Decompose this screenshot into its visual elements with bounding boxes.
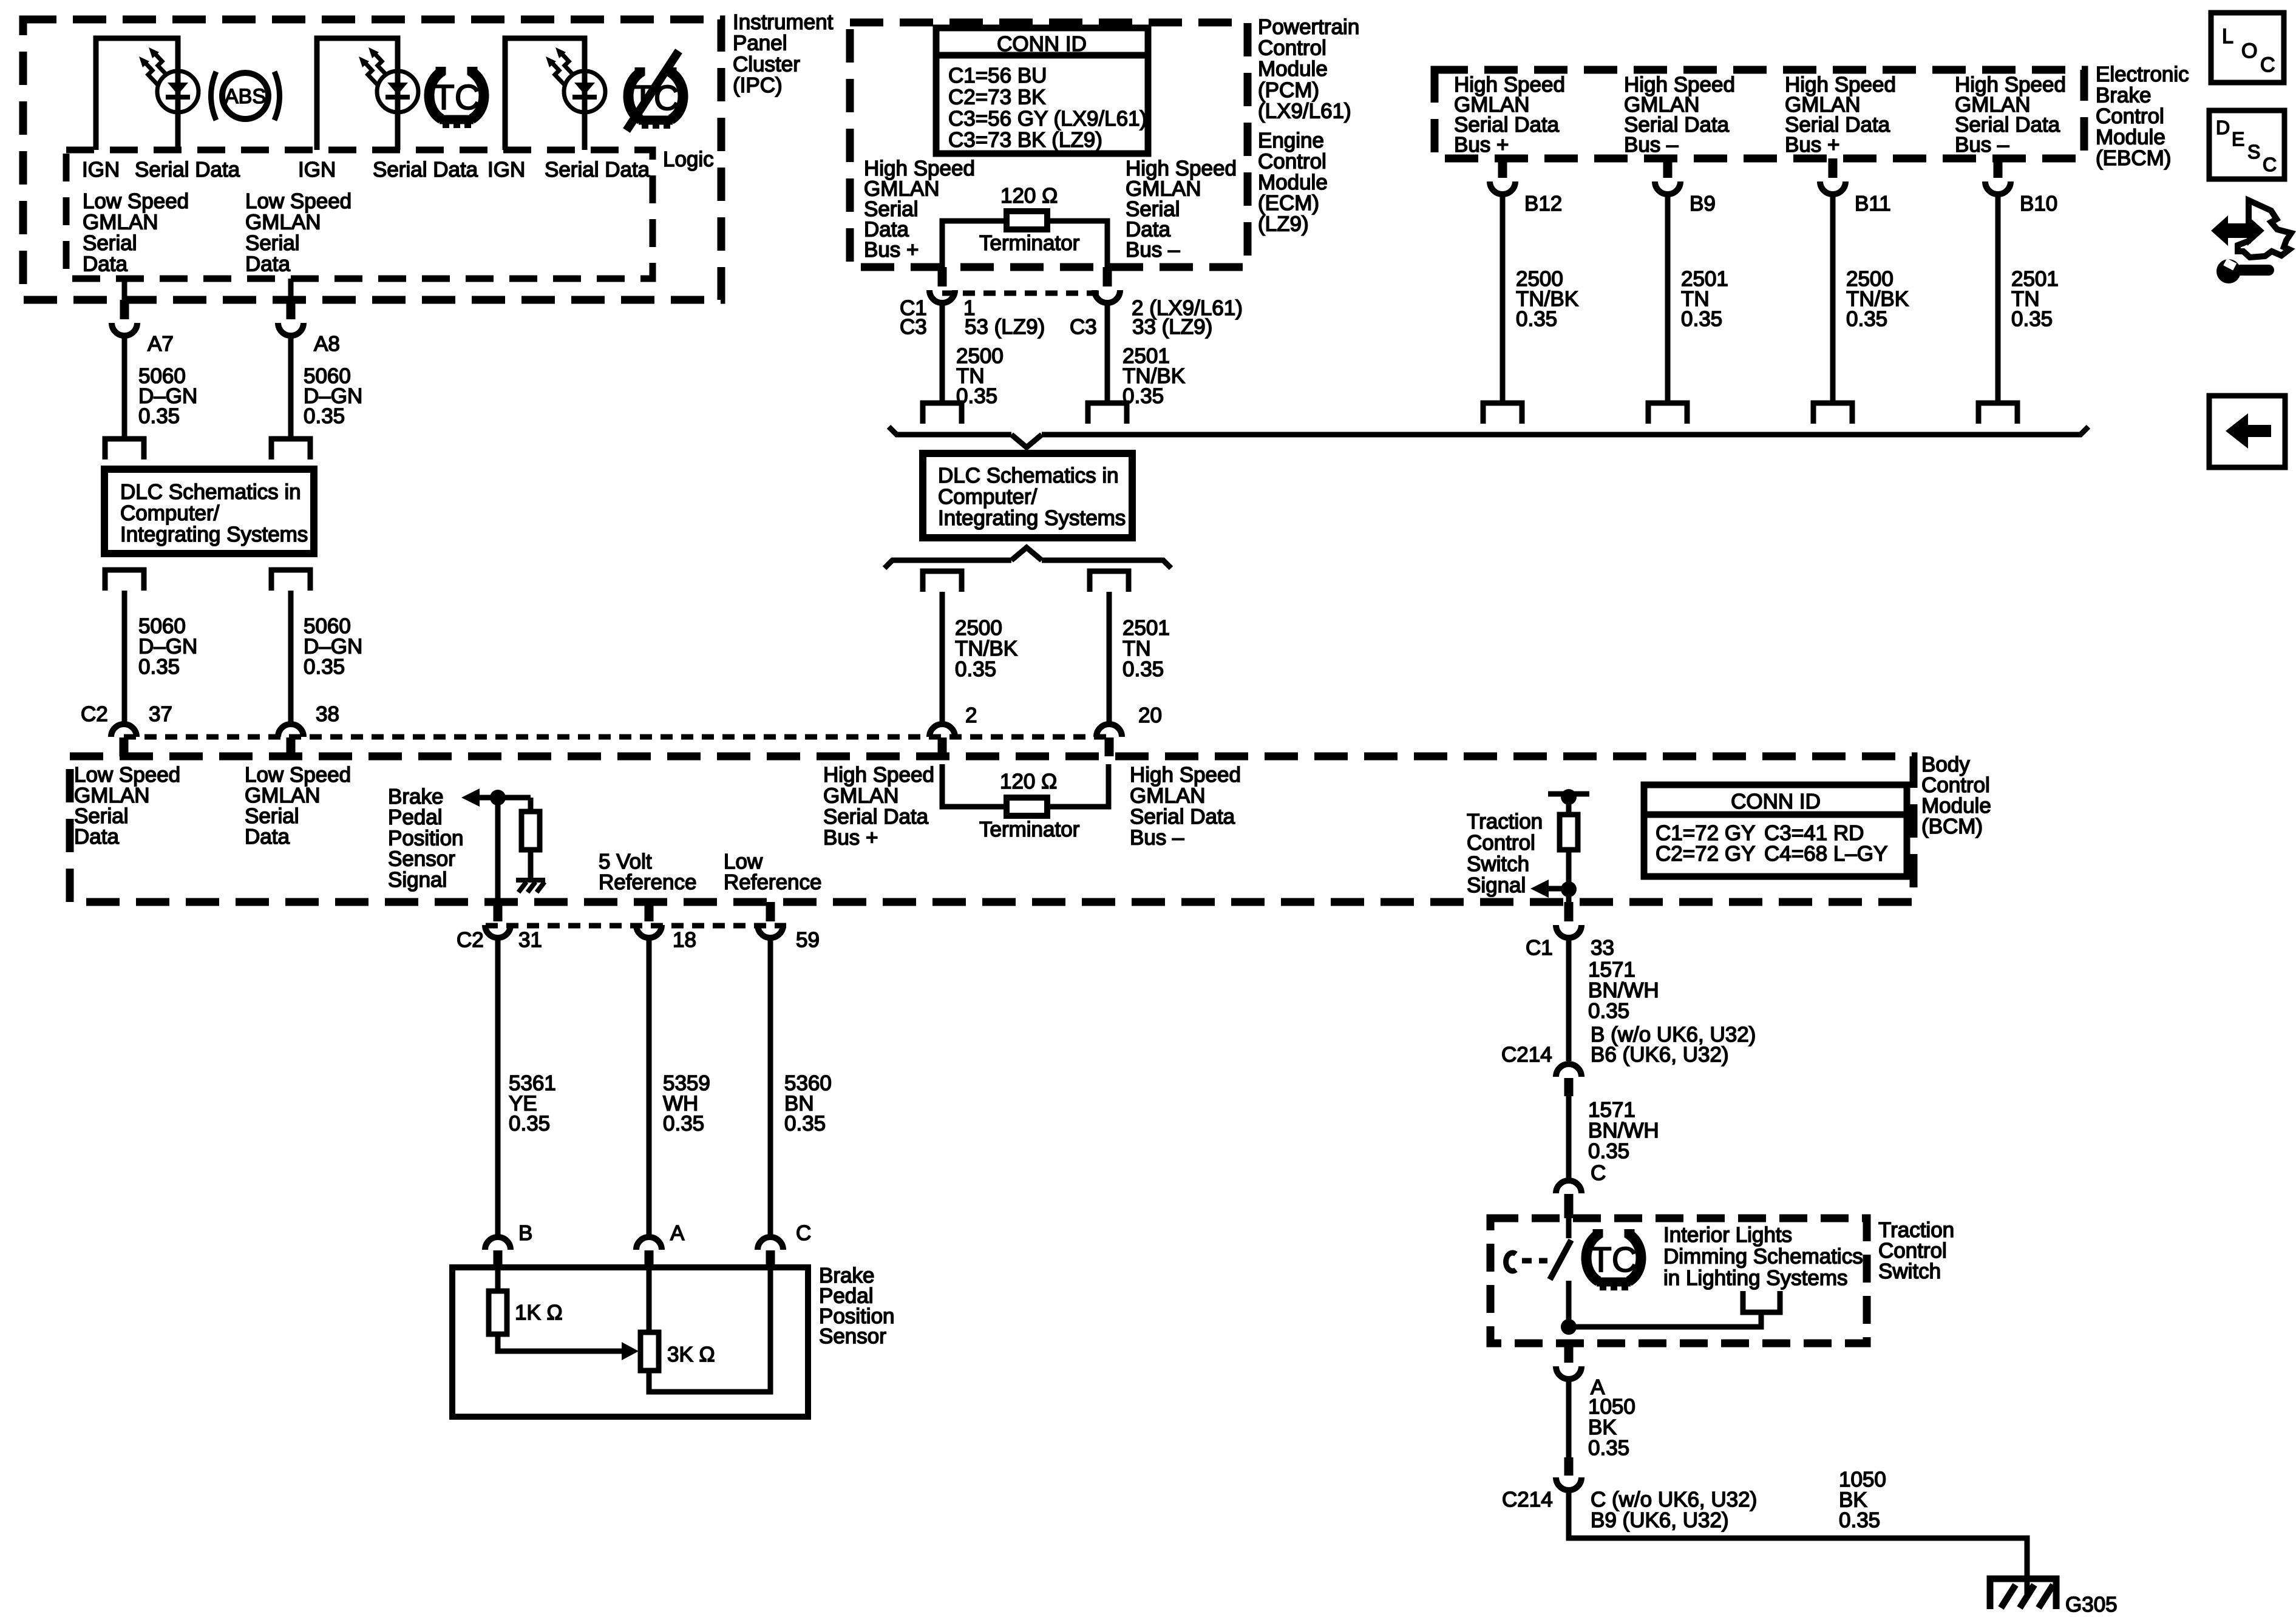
wire: PCM pin 1 to bus	[940, 302, 945, 403]
clip connector below DLC box (left)	[105, 570, 144, 591]
svg-text:C: C	[1591, 1161, 1606, 1185]
wire: 1K to wiper arrow	[498, 1334, 622, 1351]
switch contact	[1506, 1253, 1516, 1271]
svg-text:Integrating Systems: Integrating Systems	[938, 506, 1126, 530]
svg-text:Bus +: Bus +	[1785, 133, 1839, 157]
svg-text:S: S	[2247, 141, 2260, 163]
box: DLC Schematics in Computer/Integrating Systems (middle)	[923, 453, 1132, 538]
svg-text:(IPC): (IPC)	[733, 73, 783, 97]
wire: junction to pin 33	[1566, 889, 1572, 902]
ground G305	[1990, 1579, 2056, 1609]
label Traction Control Switch	[1878, 1218, 1954, 1283]
svg-text:C: C	[796, 1221, 811, 1245]
svg-text:Control: Control	[2096, 104, 2164, 128]
pull-up resistor (BCM right)	[1566, 797, 1572, 815]
BCM lower connector C2 dotted line	[486, 923, 786, 929]
pin label B9	[1681, 192, 1728, 331]
arrow: brake pedal position sensor signal	[461, 788, 480, 807]
svg-text:Instrument: Instrument	[733, 10, 834, 34]
junction dot traction signal	[1561, 881, 1577, 897]
svg-text:GMLAN: GMLAN	[83, 211, 158, 234]
wire: EBCM B12 to bus, circuit 2500	[1500, 194, 1506, 403]
svg-text:Data: Data	[245, 825, 290, 849]
svg-text:0.35: 0.35	[509, 1112, 550, 1136]
wire: C214 to ground G305	[1569, 1490, 2027, 1596]
PCM CONN ID table box	[936, 28, 1148, 154]
clip connector above DLC box (A7)	[105, 439, 144, 459]
svg-text:0.35: 0.35	[2011, 307, 2053, 331]
svg-text:DLC Schematics in: DLC Schematics in	[120, 480, 301, 504]
TC-off tire symbol with slash	[628, 67, 683, 129]
connector terminal A7 at IPC	[120, 300, 129, 319]
wire: BCM pin 33 to C214, circuit 1571	[1566, 937, 1572, 1061]
svg-text:CONN ID: CONN ID	[1731, 790, 1821, 813]
svg-text:Brake: Brake	[2096, 84, 2151, 107]
bracket to dimming schematics	[1743, 1291, 1780, 1312]
svg-text:C1: C1	[1526, 936, 1553, 960]
svg-text:B9 (UK6, U32): B9 (UK6, U32)	[1591, 1508, 1729, 1532]
svg-text:(PCM): (PCM)	[1258, 78, 1319, 102]
connector terminal C1 pin 33 at BCM	[1564, 902, 1574, 921]
TC tire symbol	[429, 67, 484, 128]
svg-text:Integrating Systems: Integrating Systems	[120, 523, 308, 546]
clip connector PCM pin1 at bus	[923, 403, 962, 424]
svg-text:0.35: 0.35	[1588, 1436, 1629, 1460]
wire: BCM pin 18 to brake pedal position sensor	[647, 937, 652, 1235]
bus brace line to DLC (upper)	[889, 427, 1011, 435]
in-line connector C214 (lower)	[1564, 1457, 1574, 1476]
svg-text:Serial Data: Serial Data	[545, 158, 650, 181]
pin label B10	[2011, 192, 2059, 331]
svg-text:Bus +: Bus +	[1454, 133, 1509, 157]
connector terminal 37 at BCM	[111, 724, 137, 737]
connector terminal 20 at BCM	[1096, 724, 1122, 737]
svg-text:Serial Data: Serial Data	[823, 805, 929, 829]
svg-text:0.35: 0.35	[304, 404, 345, 428]
svg-text:Interior Lights: Interior Lights	[1663, 1223, 1792, 1247]
svg-text:Bus –: Bus –	[1130, 826, 1184, 850]
labels IGN / Serial Data	[82, 158, 650, 181]
svg-text:E: E	[2232, 128, 2244, 150]
svg-text:B9: B9	[1690, 192, 1716, 215]
svg-text:Module: Module	[2096, 126, 2165, 149]
label Electronic Brake Control Module (EBCM)	[2096, 63, 2189, 170]
svg-text:C214: C214	[1501, 1043, 1552, 1066]
svg-text:G305: G305	[2065, 1593, 2118, 1616]
wire: EBCM B10 to bus, circuit 2501	[1995, 194, 2001, 403]
labels High Speed GMLAN Serial Data Bus (BCM)	[823, 763, 1241, 850]
svg-text:(ECM): (ECM)	[1258, 191, 1319, 215]
svg-text:(EBCM): (EBCM)	[2096, 146, 2171, 170]
svg-text:B: B	[518, 1221, 532, 1245]
wire labels 2500 TN 0.35 / 2501 TN/BK 0.35	[956, 344, 1185, 408]
label Traction Control Switch Signal	[1467, 810, 1543, 897]
labels Low Speed GMLAN Serial Data (IPC)	[83, 189, 352, 276]
svg-text:38: 38	[316, 702, 339, 726]
connector terminal A at switch exit	[1564, 1343, 1574, 1363]
svg-text:Low Speed: Low Speed	[83, 189, 189, 213]
svg-text:Engine: Engine	[1258, 129, 1324, 152]
pin label A7	[148, 332, 174, 356]
svg-text:ABS: ABS	[225, 85, 266, 108]
svg-text:0.35: 0.35	[1681, 307, 1722, 331]
svg-text:(BCM): (BCM)	[1921, 815, 1983, 838]
wire labels 5060 D-GN 0.35 (lower)	[138, 614, 362, 679]
brake pedal position sensor signal branch (BCM)	[388, 785, 464, 892]
IPC Logic inner dashed box	[66, 150, 653, 279]
module box: Traction Control Switch, dashed	[1490, 1218, 1867, 1343]
svg-text:2: 2	[965, 703, 977, 727]
svg-text:Serial Data: Serial Data	[135, 158, 240, 181]
svg-text:Signal: Signal	[388, 868, 447, 892]
icon: harness repair (arrow + wrench)	[2238, 200, 2291, 257]
svg-text:59: 59	[796, 928, 820, 952]
svg-text:C1=56 BU: C1=56 BU	[948, 64, 1047, 87]
svg-text:Traction: Traction	[1467, 810, 1543, 833]
wire: IPC pin A8 to DLC	[288, 279, 294, 300]
label Interior Lights Dimming Schematics in Lighting Systems	[1663, 1223, 1863, 1290]
labels 5 Volt Reference / Low Reference	[599, 850, 821, 894]
wire: C214 to traction control switch	[1566, 1096, 1572, 1181]
wire: IPC pin A7 to DLC	[122, 279, 127, 300]
svg-text:Serial: Serial	[245, 231, 299, 255]
svg-text:Module: Module	[1258, 57, 1328, 81]
component box: Brake Pedal Position Sensor	[452, 1267, 808, 1417]
svg-text:(LZ9): (LZ9)	[1258, 212, 1309, 236]
TC tire symbol (switch)	[1586, 1229, 1641, 1290]
svg-text:Logic: Logic	[663, 147, 714, 171]
svg-text:37: 37	[149, 702, 172, 726]
connector terminal B9 at EBCM	[1663, 158, 1673, 178]
terminator resistor 120 ohm (BCM)	[942, 764, 1007, 807]
svg-text:in Lighting Systems: in Lighting Systems	[1663, 1266, 1847, 1290]
pin label B12	[1516, 192, 1578, 331]
svg-text:Low Speed: Low Speed	[245, 189, 352, 213]
clip connector PCM pin2 at bus	[1088, 403, 1127, 424]
wire: DLC to BCM	[288, 591, 294, 722]
svg-text:0.35: 0.35	[1846, 307, 1887, 331]
wire: DLC to BCM pin 20	[1107, 592, 1112, 722]
clip connector below DLC middle (pin 2 wire)	[923, 571, 962, 592]
icon box back arrow	[2209, 396, 2285, 467]
svg-text:(LX9/L61): (LX9/L61)	[1258, 99, 1351, 123]
svg-text:C3: C3	[900, 315, 927, 339]
connector terminal C1/C3 pin 1 at PCM	[938, 267, 947, 286]
svg-text:Serial Data: Serial Data	[1130, 805, 1235, 829]
svg-text:Bus +: Bus +	[823, 826, 878, 850]
labels Low Speed GMLAN Serial Data (BCM)	[74, 763, 351, 849]
box: DLC Schematics in Computer/Integrating Systems (left)	[104, 469, 314, 554]
labels High Speed GMLAN Serial Data Bus + / - (PCM)	[864, 157, 1237, 262]
switch linkage dashed	[1522, 1258, 1547, 1264]
svg-text:0.35: 0.35	[1516, 307, 1557, 331]
svg-text:0.35: 0.35	[955, 657, 996, 681]
svg-text:Brake: Brake	[388, 785, 443, 808]
svg-text:0.35: 0.35	[138, 655, 180, 679]
svg-text:Switch: Switch	[1467, 852, 1529, 876]
pull-up bar junction (BCM right)	[1548, 792, 1589, 797]
svg-text:C214: C214	[1502, 1488, 1553, 1511]
svg-text:0.35: 0.35	[663, 1112, 704, 1136]
svg-text:18: 18	[673, 928, 696, 952]
svg-text:A8: A8	[314, 332, 340, 356]
pin label B11	[1846, 192, 1909, 331]
arrow: traction control switch signal	[1530, 880, 1549, 898]
wire: IPC LED1 loop	[96, 38, 178, 150]
svg-text:C3: C3	[1070, 315, 1097, 339]
svg-text:High Speed: High Speed	[823, 763, 934, 787]
svg-text:A7: A7	[148, 332, 174, 356]
svg-text:Control: Control	[1258, 36, 1326, 60]
svg-text:Position: Position	[388, 826, 464, 850]
svg-text:Computer/: Computer/	[938, 485, 1038, 509]
svg-text:C: C	[2260, 53, 2275, 76]
pull-up resistor to ground (BCM left)	[528, 798, 534, 812]
svg-text:0.35: 0.35	[138, 404, 180, 428]
svg-text:Module: Module	[1258, 171, 1328, 194]
clip connector EBCM B12 at bus	[1483, 403, 1522, 424]
svg-text:0.35: 0.35	[304, 655, 345, 679]
svg-text:Terminator: Terminator	[979, 231, 1080, 255]
junction dot brake signal	[490, 790, 506, 805]
svg-text:High Speed: High Speed	[1130, 763, 1241, 787]
wire: BCM pin 59 to brake pedal position sensor	[768, 937, 773, 1235]
connector terminal B10 at EBCM	[1994, 158, 2003, 178]
svg-text:C2: C2	[81, 702, 108, 726]
LED2 traction control indicator lamp	[395, 72, 401, 112]
svg-text:GMLAN: GMLAN	[245, 211, 321, 234]
svg-text:120 Ω: 120 Ω	[1000, 184, 1058, 208]
svg-text:GMLAN: GMLAN	[1130, 784, 1205, 808]
clip connector EBCM B10 at bus	[1978, 403, 2017, 424]
svg-text:0.35: 0.35	[784, 1112, 826, 1136]
connector terminal 59 at BCM bottom	[766, 902, 775, 921]
label Logic	[663, 147, 714, 171]
svg-text:TC: TC	[433, 78, 480, 117]
clip connector EBCM B9 at bus	[1648, 403, 1687, 424]
svg-text:C2=72 GY: C2=72 GY	[1656, 842, 1755, 866]
svg-text:0.35: 0.35	[1588, 999, 1629, 1023]
connector terminal A8 at IPC	[287, 300, 296, 319]
svg-text:Switch: Switch	[1878, 1259, 1941, 1283]
svg-text:B11: B11	[1855, 192, 1891, 215]
wiper arrow into 3K potentiometer	[622, 1342, 639, 1360]
svg-text:31: 31	[518, 928, 542, 952]
svg-text:C3=56 GY (LX9/L61): C3=56 GY (LX9/L61)	[948, 107, 1147, 131]
svg-text:120 Ω: 120 Ω	[1000, 770, 1057, 793]
PCM connector dotted line	[942, 291, 1107, 296]
svg-text:Serial: Serial	[83, 231, 137, 255]
svg-text:33 (LZ9): 33 (LZ9)	[1132, 315, 1212, 339]
wire labels 2500 TN/BK / 2501 TN	[955, 616, 1170, 727]
wire: EBCM B9 to bus, circuit 2501	[1665, 194, 1671, 403]
svg-text:Reference: Reference	[724, 870, 821, 894]
svg-text:0.35: 0.35	[1588, 1139, 1629, 1163]
wire: PCM pin 2 to bus	[1105, 302, 1110, 403]
connector terminal B12 at EBCM	[1498, 158, 1507, 178]
pin labels C2 37 38	[81, 702, 339, 726]
connector terminal B11 at EBCM	[1829, 158, 1838, 178]
icon box LOC	[2211, 13, 2284, 83]
svg-text:O: O	[2241, 39, 2257, 63]
svg-text:IGN: IGN	[487, 158, 525, 181]
potentiometer 3K ohm	[640, 1332, 659, 1371]
clip connector above DLC box (A8)	[271, 439, 310, 459]
svg-text:Control: Control	[1258, 149, 1326, 173]
connector terminal C at traction control switch	[1556, 1181, 1581, 1193]
svg-text:Serial Data: Serial Data	[373, 158, 478, 181]
junction dot in switch	[1561, 1319, 1577, 1335]
connector terminal 18 at BCM bottom	[645, 902, 654, 921]
svg-text:IGN: IGN	[82, 158, 120, 181]
svg-text:CONN ID: CONN ID	[997, 32, 1087, 56]
svg-text:Powertrain: Powertrain	[1258, 15, 1359, 39]
wire: A to 3K top	[647, 1267, 652, 1332]
svg-text:GMLAN: GMLAN	[823, 784, 898, 808]
svg-text:0.35: 0.35	[1123, 657, 1164, 681]
svg-text:Sensor: Sensor	[388, 847, 455, 871]
svg-text:C: C	[2263, 154, 2277, 175]
wire: IPC LED3 loop	[505, 38, 585, 150]
label Instrument Panel Cluster (IPC)	[733, 10, 834, 97]
svg-text:A: A	[670, 1221, 685, 1245]
connector terminal C3 pin 2 at PCM	[1103, 267, 1112, 286]
wire: BCM pin 31 to brake pedal position sensor	[495, 937, 501, 1235]
svg-text:Sensor: Sensor	[819, 1324, 886, 1348]
clip connector below DLC middle (pin 20 wire)	[1090, 571, 1129, 592]
module box: Powertrain Control Module (PCM), dashed	[850, 22, 1248, 267]
svg-text:Bus –: Bus –	[1126, 238, 1180, 262]
svg-text:C2=73 BK: C2=73 BK	[948, 85, 1046, 109]
connector terminal 2 at BCM	[929, 724, 955, 737]
svg-text:C2: C2	[457, 928, 484, 952]
pin labels C1 C3 1 53 2 33	[900, 296, 1243, 339]
BCM CONN ID table box	[1644, 785, 1907, 876]
connector terminal 31 at BCM bottom	[494, 902, 503, 921]
svg-text:0.35: 0.35	[1839, 1508, 1880, 1532]
svg-text:Bus +: Bus +	[864, 238, 919, 262]
svg-text:Pedal: Pedal	[388, 805, 443, 829]
svg-text:Computer/: Computer/	[120, 501, 220, 525]
in-line connector C214 (upper)	[1556, 1064, 1581, 1077]
clip connector below DLC box (left)	[271, 570, 310, 591]
svg-text:Terminator: Terminator	[979, 818, 1080, 841]
wire: switch to C214 lower, circuit 1050	[1566, 1378, 1572, 1457]
svg-text:Panel: Panel	[733, 32, 787, 55]
connector terminal B at sensor	[485, 1237, 511, 1250]
switch blade	[1566, 1218, 1572, 1238]
svg-text:TC: TC	[1590, 1240, 1637, 1280]
connector terminal 38 at BCM	[278, 724, 304, 737]
module box: Body Control Module (BCM), dashed	[70, 756, 1914, 902]
icon box DESC	[2209, 110, 2284, 179]
resistor 1K ohm	[495, 1267, 501, 1291]
svg-text:Reference: Reference	[599, 870, 696, 894]
svg-text:DLC Schematics in: DLC Schematics in	[938, 464, 1119, 487]
svg-text:20: 20	[1138, 703, 1162, 727]
svg-text:IGN: IGN	[298, 158, 336, 181]
module box: Electronic Brake Control Module (EBCM), dashed	[1435, 70, 2084, 158]
svg-text:B6 (UK6, U32): B6 (UK6, U32)	[1591, 1043, 1729, 1066]
svg-text:D: D	[2216, 117, 2230, 138]
label Body Control Module (BCM)	[1921, 753, 1991, 838]
wire: DLC to BCM pin 2	[940, 592, 945, 722]
svg-text:3K Ω: 3K Ω	[667, 1343, 715, 1366]
wire: C to 3K bottom	[649, 1267, 770, 1392]
connector terminal C at sensor	[758, 1237, 783, 1250]
pin label A8	[314, 332, 340, 356]
wire: IPC LED2 loop	[317, 38, 398, 150]
svg-text:C4=68 L–GY: C4=68 L–GY	[1764, 842, 1887, 866]
terminator resistor 120 ohm (PCM)	[942, 221, 1007, 267]
svg-text:33: 33	[1591, 936, 1614, 960]
svg-text:Control: Control	[1467, 831, 1535, 855]
svg-text:Data: Data	[245, 253, 290, 276]
module box: Instrument Panel Cluster (IPC), dashed	[23, 19, 721, 300]
svg-text:1K Ω: 1K Ω	[515, 1301, 563, 1324]
svg-text:Data: Data	[74, 825, 119, 849]
svg-text:B12: B12	[1524, 192, 1562, 215]
connector terminal A at sensor	[636, 1237, 662, 1250]
bus brace line from DLC (lower)	[885, 560, 1011, 568]
svg-text:Cluster: Cluster	[733, 52, 800, 76]
BCM connector C2 dotted line (pins 37/38 ... 2/20)	[124, 734, 1109, 740]
svg-text:C3=73 BK (LZ9): C3=73 BK (LZ9)	[948, 128, 1102, 152]
LED3 traction off indicator lamp	[582, 72, 588, 112]
svg-text:B10: B10	[2020, 192, 2057, 215]
label Powertrain Control Module (PCM) (LX9/L61)	[1258, 15, 1359, 236]
ABS warning symbol	[222, 73, 268, 119]
wire labels 5060 D-GN 0.35 (upper)	[138, 364, 362, 428]
svg-text:Data: Data	[83, 253, 127, 276]
wire: DLC to BCM	[122, 591, 127, 722]
svg-text:53 (LZ9): 53 (LZ9)	[965, 315, 1045, 339]
ground (BCM internal)	[516, 878, 545, 883]
svg-text:Dimming Schematics: Dimming Schematics	[1663, 1245, 1863, 1269]
clip connector EBCM B11 at bus	[1813, 403, 1852, 424]
svg-text:Signal: Signal	[1467, 873, 1526, 897]
wire: junction to pin 31	[495, 798, 501, 902]
LED1 ABS indicator lamp	[175, 72, 181, 112]
svg-text:L: L	[2222, 25, 2233, 48]
svg-text:Bus –: Bus –	[1624, 133, 1679, 157]
svg-text:Electronic: Electronic	[2096, 63, 2189, 86]
svg-text:Bus –: Bus –	[1955, 133, 2009, 157]
wire: EBCM B11 to bus, circuit 2500	[1830, 194, 1836, 403]
